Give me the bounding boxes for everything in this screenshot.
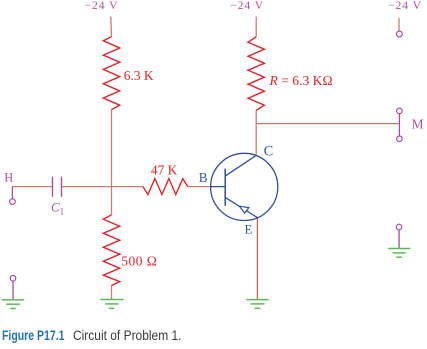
- svg-text:H: H: [4, 171, 13, 185]
- svg-text:E: E: [245, 223, 253, 237]
- svg-text:R = 6.3 KΩ: R = 6.3 KΩ: [269, 73, 333, 88]
- svg-text:47 K: 47 K: [151, 163, 178, 178]
- svg-text:−24 V: −24 V: [230, 0, 264, 12]
- svg-text:−24 V: −24 V: [85, 0, 119, 12]
- svg-text:−24 V: −24 V: [388, 0, 422, 12]
- svg-text:M: M: [412, 117, 424, 132]
- svg-text:6.3 K: 6.3 K: [124, 68, 154, 83]
- svg-text:Circuit of Problem 1.: Circuit of Problem 1.: [73, 328, 182, 343]
- svg-text:B: B: [199, 170, 208, 185]
- svg-text:500 Ω: 500 Ω: [121, 253, 157, 268]
- svg-text:Figure P17.1: Figure P17.1: [2, 328, 65, 343]
- svg-text:C1: C1: [51, 200, 64, 217]
- svg-text:C: C: [264, 143, 273, 159]
